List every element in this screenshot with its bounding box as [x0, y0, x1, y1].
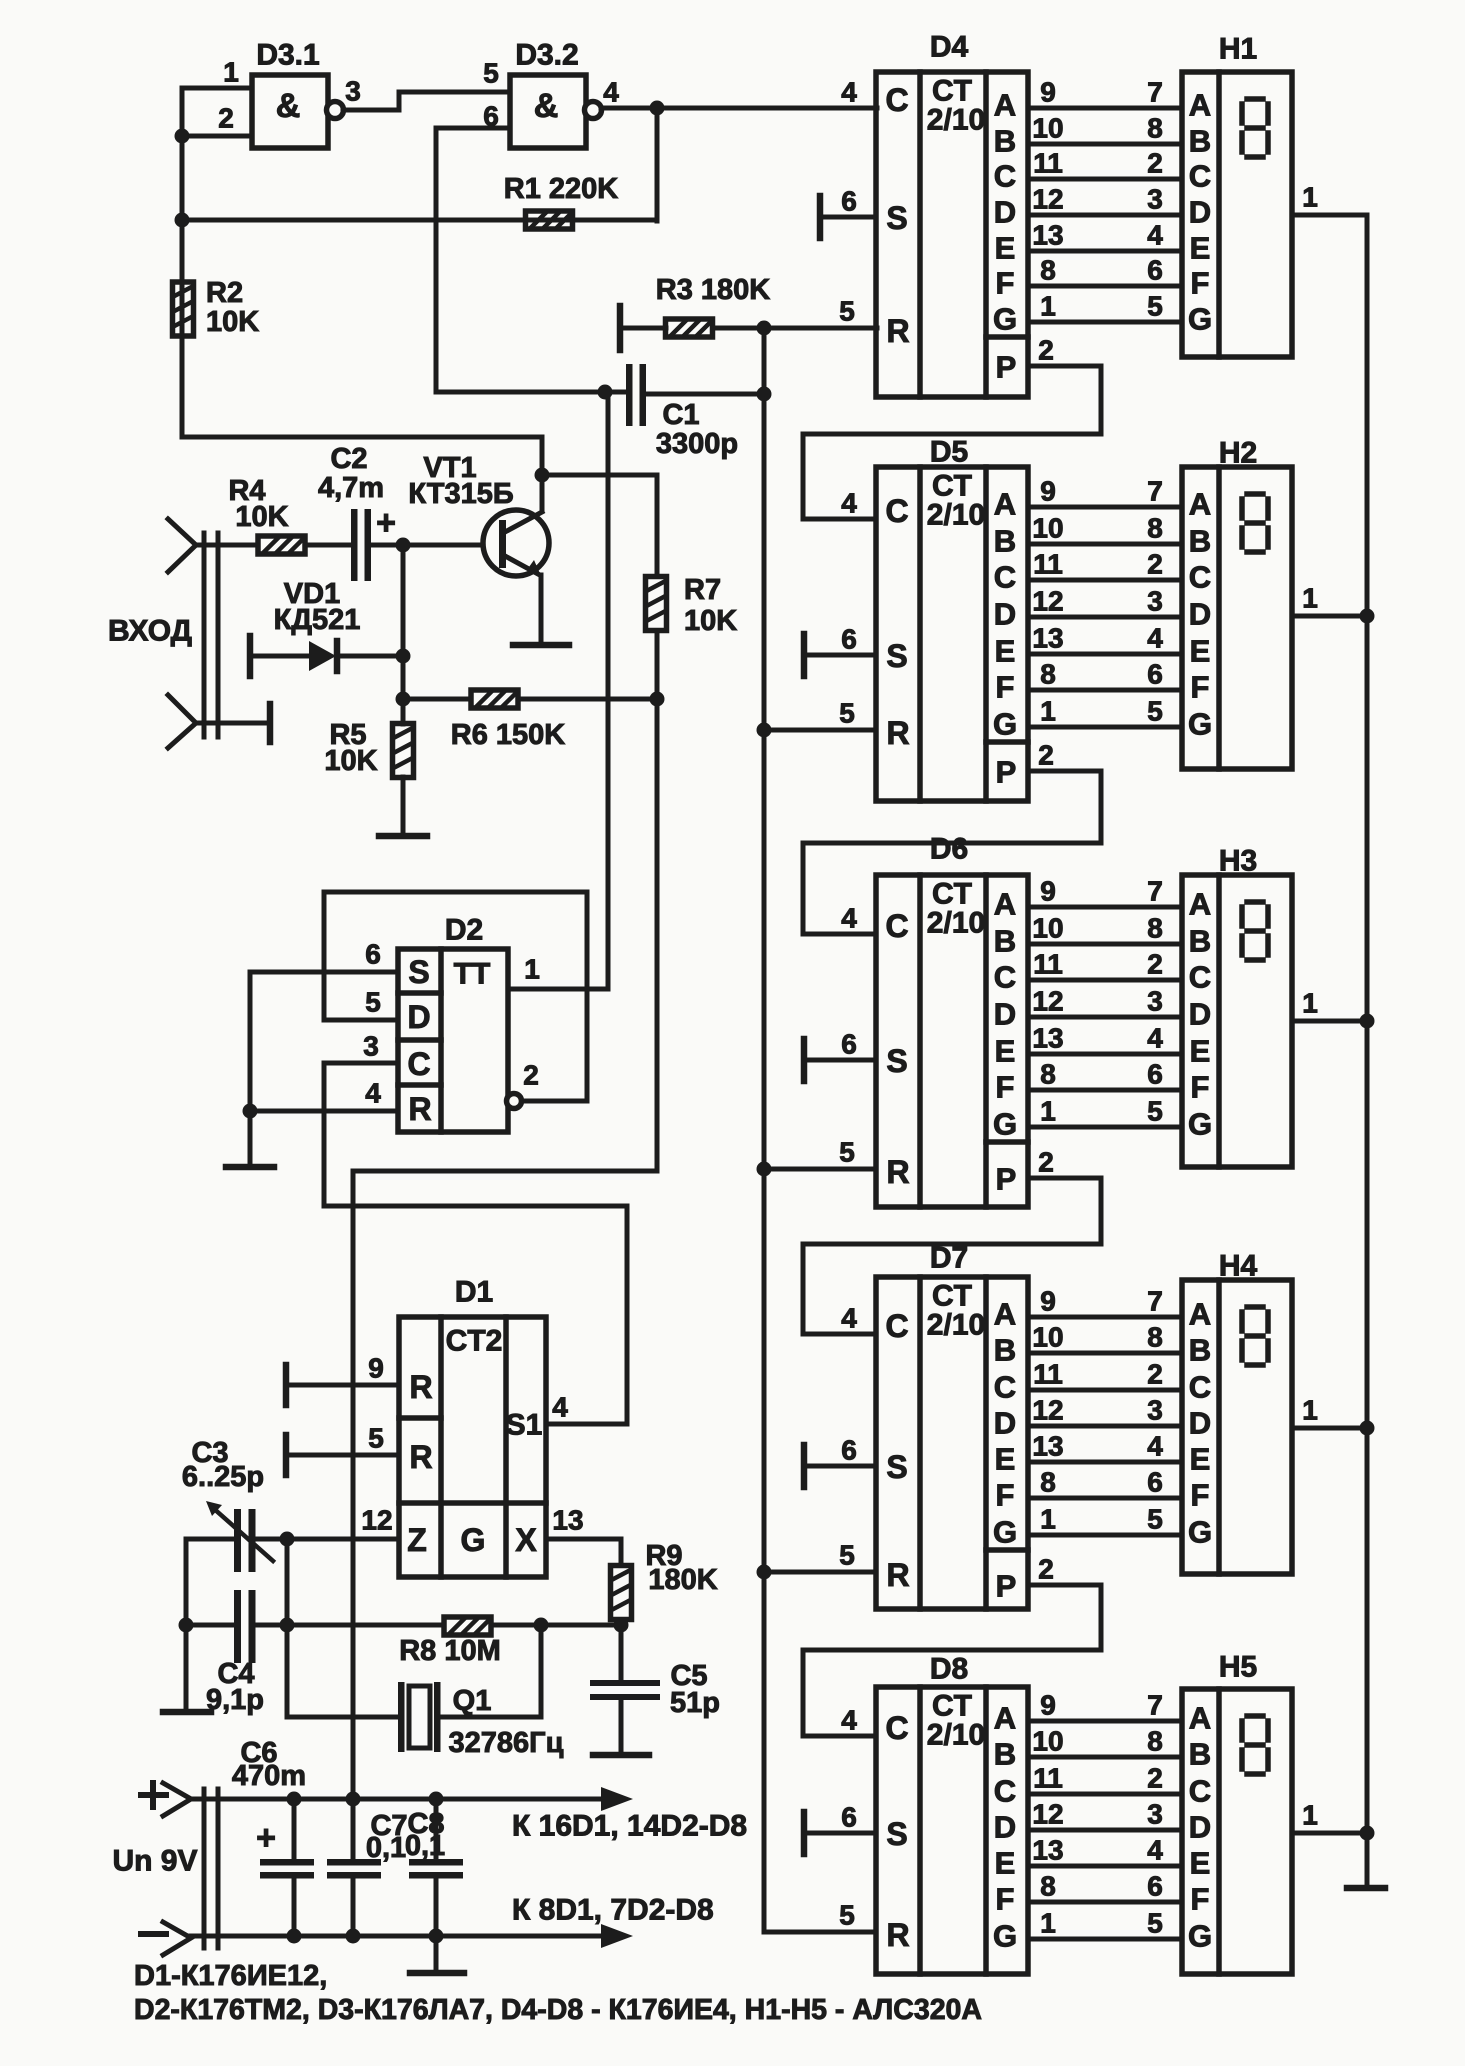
svg-text:E: E [995, 1442, 1016, 1477]
pin label 1 (D2 Q) [524, 954, 540, 985]
junction collector node [535, 468, 550, 483]
wire D4 output D (pin 12) to H1 pin 3 [1028, 213, 1182, 218]
svg-text:5: 5 [368, 1423, 384, 1454]
power connector double bars [204, 1789, 218, 1948]
svg-text:E: E [995, 1846, 1016, 1881]
wire D8 output C (pin 11) to H5 pin 2 [1028, 1792, 1182, 1797]
svg-text:R6 150K: R6 150K [451, 719, 566, 751]
wire D3.2 pin6 feedback down to C1 node [436, 128, 627, 392]
svg-text:8: 8 [1147, 113, 1163, 144]
svg-text:5: 5 [1147, 1096, 1163, 1127]
label H2 [1219, 437, 1257, 470]
svg-text:6: 6 [1147, 1059, 1163, 1090]
svg-text:9: 9 [1040, 1690, 1056, 1721]
svg-text:G: G [993, 302, 1017, 337]
svg-text:F: F [996, 1478, 1015, 1513]
svg-text:B: B [994, 524, 1016, 559]
capacitor C4 9.1p [234, 1590, 256, 1663]
label Un 9V [112, 1845, 197, 1878]
pin label 1 (D8) [1040, 1908, 1056, 1939]
svg-text:5: 5 [839, 296, 855, 327]
pin label 5 (H5) [1147, 1908, 1163, 1939]
pin label 2 (H5) [1147, 1763, 1163, 1794]
svg-text:4: 4 [1147, 623, 1163, 654]
wire VD1 anode [250, 654, 309, 659]
svg-text:B: B [994, 1737, 1016, 1772]
junction bus H4 [1360, 1421, 1375, 1436]
wire crystal right up to R8 node [440, 1625, 541, 1717]
svg-text:5: 5 [1147, 1504, 1163, 1535]
wire D4 output E (pin 13) to H1 pin 4 [1028, 249, 1182, 254]
svg-text:C: C [1189, 560, 1211, 595]
svg-text:5: 5 [483, 58, 499, 89]
capacitor C2 4.7m electrolytic [351, 504, 396, 581]
junction pins1-2 tie [175, 129, 190, 144]
pin label 10 (D7) [1032, 1322, 1063, 1353]
pin label 9 (D5) [1040, 476, 1056, 507]
wire VD1 cathode [337, 654, 403, 659]
wire D2 D pin [324, 1018, 398, 1023]
wire D2 C clock from D1 S1 [324, 1063, 627, 1424]
svg-text:7: 7 [1147, 476, 1163, 507]
label R2 [206, 277, 243, 309]
svg-text:6: 6 [1147, 1871, 1163, 1902]
resistor R3 180K [666, 319, 713, 337]
svg-text:C: C [994, 560, 1016, 595]
label Q1 [453, 1685, 492, 1717]
wire D1 pin9 [286, 1383, 399, 1388]
svg-text:E: E [995, 231, 1016, 266]
pin label 8 (H3) [1147, 913, 1163, 944]
label D3.2 [515, 39, 578, 72]
svg-text:S: S [886, 1816, 907, 1852]
svg-text:S: S [408, 954, 429, 990]
label 10K (R7) [684, 605, 737, 637]
resistor R8 10M [444, 1617, 491, 1635]
svg-text:E: E [1190, 634, 1211, 669]
junction crystal right tie [534, 1618, 549, 1633]
pin label 11 (D7) [1033, 1359, 1063, 1390]
svg-text:+: + [256, 1819, 276, 1857]
svg-text:12: 12 [1032, 184, 1063, 215]
svg-text:D3.1: D3.1 [256, 39, 319, 72]
label R3 180K [656, 274, 771, 306]
svg-text:4: 4 [1147, 1835, 1163, 1866]
svg-text:D3.2: D3.2 [515, 39, 578, 72]
label C3 [191, 1437, 228, 1469]
pin label 2 (H4) [1147, 1359, 1163, 1390]
pin label 8 (D7) [1040, 1467, 1056, 1498]
pin label 6 (D6 S) [841, 1029, 857, 1060]
svg-text:H3: H3 [1219, 845, 1257, 878]
pin label 9 (D1 R) [368, 1353, 384, 1384]
svg-text:P: P [996, 1569, 1017, 1604]
pin label 5 (H4) [1147, 1504, 1163, 1535]
svg-text:9: 9 [1040, 876, 1056, 907]
svg-text:C: C [885, 908, 908, 944]
label R9 [645, 1540, 682, 1572]
label K 16D1, 14D2-D8 [512, 1810, 747, 1843]
pin label 3 (H5) [1147, 1799, 1163, 1830]
pin label 2 (D3.1) [218, 103, 234, 134]
svg-text:1: 1 [1040, 291, 1056, 322]
svg-text:6: 6 [841, 1435, 857, 1466]
logic gate D3.1 (K176LA7) [252, 75, 344, 148]
wire D2 pin1 Q up to C1 node [508, 394, 608, 989]
svg-text:9: 9 [1040, 476, 1056, 507]
diode VD1 KD521 [309, 641, 337, 671]
svg-text:B: B [994, 124, 1016, 159]
pin label 5 (D2 D) [365, 987, 381, 1018]
label 3300p (C1) [656, 428, 738, 460]
svg-text:+: + [376, 504, 396, 542]
svg-text:5: 5 [1147, 291, 1163, 322]
svg-text:A: A [1189, 1297, 1211, 1332]
svg-text:F: F [996, 1070, 1015, 1105]
junction +9V rail tap [346, 1792, 361, 1807]
wire D1 Z row [256, 1537, 399, 1542]
wire input bottom to body bar [196, 721, 268, 726]
wire R3 left [620, 326, 666, 331]
svg-text:R: R [886, 313, 909, 349]
ground VT1 emitter [513, 642, 569, 649]
7-segment display H4 (ALS320A) [1182, 1280, 1292, 1574]
pin label 10 (D6) [1032, 913, 1063, 944]
pin label 8 (D6) [1040, 1059, 1056, 1090]
svg-text:4: 4 [552, 1392, 568, 1423]
pin label 7 (H3) [1147, 876, 1163, 907]
pin label 10 (D4) [1032, 113, 1063, 144]
svg-text:F: F [996, 1882, 1015, 1917]
power terminal minus chevron [141, 1922, 191, 1955]
pin label 11 (D4) [1033, 148, 1063, 179]
junction Z/C3 node [280, 1532, 295, 1547]
label C6 [240, 1737, 277, 1769]
svg-text:G: G [461, 1522, 486, 1558]
counter D1 (K176IE12) [399, 1317, 546, 1577]
pin label 7 (H4) [1147, 1286, 1163, 1317]
svg-text:1: 1 [1302, 182, 1318, 213]
svg-text:D1: D1 [455, 1276, 493, 1309]
label D8 [930, 1653, 968, 1686]
pin label 3 [345, 76, 361, 107]
svg-text:2: 2 [1147, 148, 1163, 179]
svg-text:R3 180K: R3 180K [656, 274, 771, 306]
svg-text:13: 13 [1032, 1023, 1063, 1054]
label 180K (R9) [648, 1564, 717, 1596]
pin label 4 (H2) [1147, 623, 1163, 654]
terminal bar VD1 anode [247, 636, 254, 676]
svg-text:F: F [1191, 1070, 1210, 1105]
ground C5 [593, 1752, 649, 1759]
pin label 9 (D7) [1040, 1286, 1056, 1317]
svg-text:C: C [1189, 960, 1211, 995]
svg-text:4: 4 [1147, 1431, 1163, 1462]
pin label 4 (D3.2 output) [603, 77, 619, 108]
svg-text:13: 13 [1032, 623, 1063, 654]
svg-text:G: G [993, 707, 1017, 742]
terminal bar D1 pin5 [283, 1435, 290, 1475]
counter D7 (K176IE4) CT2/10 [876, 1277, 1028, 1609]
pin label 5 (D8 R) [839, 1900, 855, 1931]
svg-text:3300p: 3300p [656, 428, 738, 460]
svg-text:9: 9 [368, 1353, 384, 1384]
wire pin 2 stub [182, 134, 252, 139]
pin label 13 (D1 X) [552, 1505, 583, 1536]
svg-text:C: C [1189, 1370, 1211, 1405]
svg-text:S: S [886, 1449, 907, 1485]
svg-text:7: 7 [1147, 1286, 1163, 1317]
svg-text:R: R [409, 1369, 432, 1405]
svg-text:R: R [886, 1917, 909, 1953]
svg-text:E: E [995, 1034, 1016, 1069]
pin label 5 (H1) [1147, 291, 1163, 322]
input connector VHOD chevron bottom [168, 695, 196, 748]
svg-text:D5: D5 [930, 436, 968, 469]
note line 1 D1-K176IE12 [134, 1960, 327, 1992]
junction bus H5 [1360, 1826, 1375, 1841]
counter D5 (K176IE4) CT2/10 [876, 467, 1028, 801]
svg-text:0,1: 0,1 [405, 1830, 445, 1862]
junction C6 plus rail [287, 1792, 302, 1807]
svg-text:5: 5 [839, 1137, 855, 1168]
pin label 12 (D1 Z) [361, 1505, 392, 1536]
label 10K (R2) [206, 306, 259, 338]
crystal Q1 32786Hz [398, 1682, 441, 1752]
svg-text:D: D [1189, 1406, 1211, 1441]
wire VT1 emitter to ground [539, 575, 544, 643]
svg-text:D: D [1189, 997, 1211, 1032]
svg-text:C1: C1 [662, 399, 699, 431]
pin label 2 (D5 P) [1038, 740, 1054, 771]
svg-text:1: 1 [1040, 1504, 1056, 1535]
resistor R2 10K [173, 282, 194, 336]
wire +9V bus down to power rail [351, 1171, 356, 1862]
wire D5 output G (pin 1) to H2 pin 5 [1028, 725, 1182, 730]
svg-text:5: 5 [839, 698, 855, 729]
svg-text:C2: C2 [330, 443, 367, 475]
pin label 1 (H5) [1302, 1800, 1318, 1831]
svg-text:D: D [1189, 1810, 1211, 1845]
svg-text:A: A [994, 88, 1016, 123]
wire D7 P to next counter C [803, 1585, 1101, 1736]
junction C4 left [179, 1618, 194, 1633]
label KT315B (VT1) [408, 478, 513, 510]
svg-text:К 16D1, 14D2-D8: К 16D1, 14D2-D8 [512, 1810, 747, 1843]
svg-text:G: G [993, 1515, 1017, 1550]
ground displays common bus [1347, 1885, 1385, 1892]
svg-text:7: 7 [1147, 77, 1163, 108]
svg-text:1: 1 [1040, 1908, 1056, 1939]
svg-text:P: P [996, 350, 1017, 385]
svg-text:&: & [276, 87, 301, 125]
svg-text:12: 12 [1032, 986, 1063, 1017]
svg-text:B: B [1189, 924, 1211, 959]
label KD521 (VD1) [274, 604, 361, 636]
svg-text:C: C [994, 1774, 1016, 1809]
svg-text:4: 4 [841, 1705, 857, 1736]
wire H3 pin 1 to common bus [1292, 1019, 1367, 1024]
terminal bar input bottom [267, 704, 274, 742]
svg-text:10: 10 [1032, 1726, 1063, 1757]
capacitor C6 470m electrolytic [256, 1799, 314, 1936]
svg-text:12: 12 [361, 1505, 392, 1536]
svg-text:R: R [886, 1154, 909, 1190]
wire D6 output E (pin 13) to H3 pin 4 [1028, 1052, 1182, 1057]
svg-text:5: 5 [1147, 1908, 1163, 1939]
label R1 220K [504, 173, 619, 205]
svg-text:3: 3 [1147, 586, 1163, 617]
pin label 4 (D7 C) [841, 1303, 857, 1334]
svg-text:E: E [1190, 1442, 1211, 1477]
displays common bus vertical [1365, 215, 1370, 1886]
svg-text:10: 10 [1032, 113, 1063, 144]
svg-text:4,7m: 4,7m [318, 472, 384, 504]
wire D5 output B (pin 10) to H2 pin 8 [1028, 542, 1182, 547]
pin label 4 (D8 C) [841, 1705, 857, 1736]
svg-text:C: C [994, 159, 1016, 194]
svg-text:3: 3 [1147, 986, 1163, 1017]
svg-text:R1 220K: R1 220K [504, 173, 619, 205]
svg-text:8: 8 [1147, 913, 1163, 944]
svg-text:11: 11 [1033, 1763, 1063, 1794]
svg-text:6: 6 [841, 1802, 857, 1833]
svg-text:5: 5 [365, 987, 381, 1018]
svg-text:H5: H5 [1219, 1651, 1257, 1684]
svg-text:1: 1 [524, 954, 540, 985]
pin label 4 (D5 C) [841, 488, 857, 519]
resistor R7 10K [646, 577, 667, 631]
pin label 1 (H2) [1302, 583, 1318, 614]
wire D4 output C (pin 11) to H1 pin 2 [1028, 177, 1182, 182]
svg-text:E: E [995, 634, 1016, 669]
pin label 7 (H2) [1147, 476, 1163, 507]
wire D8 output E (pin 13) to H5 pin 4 [1028, 1864, 1182, 1869]
svg-text:2: 2 [1038, 335, 1054, 366]
svg-text:2: 2 [523, 1060, 539, 1091]
svg-text:3: 3 [1147, 1799, 1163, 1830]
pin label 1 (H1) [1302, 182, 1318, 213]
svg-text:6: 6 [1147, 1467, 1163, 1498]
pin label 6 (H4) [1147, 1467, 1163, 1498]
flip-flop D2 (K176TM2) [398, 949, 508, 1132]
pin label 11 (D6) [1033, 949, 1063, 980]
pin label 2 (H2) [1147, 549, 1163, 580]
label 470m (C6) [232, 1760, 306, 1792]
svg-text:A: A [994, 1297, 1016, 1332]
svg-text:1: 1 [223, 57, 239, 88]
pin label 7 (H1) [1147, 77, 1163, 108]
pin label 1 (D6) [1040, 1096, 1056, 1127]
junction output-4 node [650, 101, 665, 116]
terminal bar D1 pin9 [283, 1365, 290, 1405]
wire R6 right to +9V bus [518, 697, 657, 702]
svg-text:8: 8 [1147, 1322, 1163, 1353]
pin label 2 (H3) [1147, 949, 1163, 980]
pin label 12 (D4) [1032, 184, 1063, 215]
junction R1 left / gate input node [175, 213, 190, 228]
svg-text:G: G [1188, 1919, 1212, 1954]
wire R5 top [401, 699, 406, 724]
wire D8 output F (pin 8) to H5 pin 6 [1028, 1900, 1182, 1905]
wire D2 Qbar feedback to D input [324, 892, 587, 1101]
junction bus H3 [1360, 1014, 1375, 1029]
junction R6 on +9V bus [650, 692, 665, 707]
capacitor C1 3300p [626, 364, 646, 426]
pin label 3 (H2) [1147, 586, 1163, 617]
wire D3.1 output to D3.2 pin 5 [343, 92, 510, 110]
wire D1 X to R9 [546, 1539, 621, 1565]
label D5 [930, 436, 968, 469]
wire R8 right [491, 1623, 621, 1628]
svg-text:R: R [886, 715, 909, 751]
capacitor C3 6..25p variable [206, 1501, 273, 1572]
svg-text:D4: D4 [930, 31, 969, 64]
wire D7 output B (pin 10) to H4 pin 8 [1028, 1351, 1182, 1356]
wire D2 R pin [250, 1109, 398, 1114]
svg-text:F: F [996, 266, 1015, 301]
pin label 9 (D8) [1040, 1690, 1056, 1721]
wire D2 S pin [250, 970, 398, 975]
wire D6 output D (pin 12) to H3 pin 3 [1028, 1015, 1182, 1020]
svg-text:D: D [1189, 195, 1211, 230]
svg-text:D: D [994, 1810, 1016, 1845]
pin label 5 (D1 R) [368, 1423, 384, 1454]
wire R1 row [182, 218, 657, 223]
wire collector up to gate-loop [182, 437, 542, 511]
wire D5 P to next counter C [803, 771, 1101, 934]
7-segment display H3 (ALS320A) [1182, 875, 1292, 1167]
label 4,7m (C2) [318, 472, 384, 504]
pin label 4 (D6 C) [841, 903, 857, 934]
reset bus vertical (R pins of D4-D8) [762, 328, 767, 1932]
pin label 3 (H1) [1147, 184, 1163, 215]
counter D8 (K176IE4) CT2/10 [876, 1687, 1028, 1974]
label C8 [407, 1808, 444, 1840]
input connector VHOD chevron top [168, 519, 196, 572]
wire D7 S pin [804, 1464, 876, 1469]
wire D8 R pin [764, 1930, 876, 1935]
svg-text:4: 4 [603, 77, 619, 108]
wire D6 S pin [804, 1058, 876, 1063]
label H1 [1219, 33, 1257, 66]
wire D5 output A (pin 9) to H2 pin 7 [1028, 505, 1182, 510]
svg-text:2/10: 2/10 [927, 1309, 985, 1342]
svg-text:2: 2 [1147, 549, 1163, 580]
svg-text:ВХОД: ВХОД [108, 615, 192, 648]
wire D4 S pin [820, 215, 876, 220]
svg-text:F: F [1191, 670, 1210, 705]
svg-text:D2-К176ТМ2, D3-К176ЛА7, D4-D8: D2-К176ТМ2, D3-К176ЛА7, D4-D8 - К176ИЕ4,… [134, 1994, 982, 2026]
wire H2 pin 1 to common bus [1292, 614, 1367, 619]
label VD1 [284, 578, 340, 610]
svg-text:P: P [996, 755, 1017, 790]
ground R5 [379, 833, 427, 840]
pin label 4 (H4) [1147, 1431, 1163, 1462]
pin label 11 (D8) [1033, 1763, 1063, 1794]
junction reset bus D7 [757, 1565, 772, 1580]
svg-text:8: 8 [1040, 255, 1056, 286]
wire D5 output F (pin 8) to H2 pin 6 [1028, 688, 1182, 693]
wire input top to R4 [196, 543, 258, 548]
svg-text:D1-К176ИЕ12,: D1-К176ИЕ12, [134, 1960, 327, 1992]
svg-text:13: 13 [1032, 1431, 1063, 1462]
pin label 9 (D6) [1040, 876, 1056, 907]
transistor VT1 KT315B [483, 510, 549, 576]
label K 8D1, 7D2-D8 [512, 1894, 714, 1927]
svg-text:D: D [994, 997, 1016, 1032]
svg-text:1: 1 [1302, 1395, 1318, 1426]
